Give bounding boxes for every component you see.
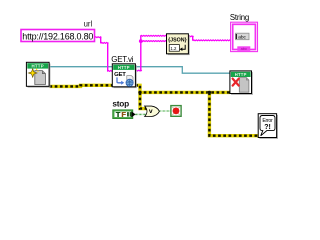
wire: url string constant -> GET.vi url input [95,37,102,38]
svg-text:1.2: 1.2 [170,46,177,51]
subVI: HTTP CloseHandle.vi [230,71,253,95]
svg-text:http://192.168.0.80: http://192.168.0.80 [22,31,93,41]
wire: Or gate -> loop condition terminal [159,110,171,112]
svg-text:abc: abc [238,35,246,41]
svg-text:?!: ?! [264,124,271,131]
subVI: Simple Error Handler.vi [258,114,278,139]
svg-text:Error: Error [262,118,273,124]
control terminal: stop (boolean TF) [112,109,135,119]
junction dot on string wire [139,39,143,43]
svg-text:HTTP: HTTP [118,65,130,70]
wire: error cluster GET->close (with junctions) [135,85,230,92]
svg-text:url: url [84,20,93,29]
wire: GET.vi body output up to JSON node (two inputs) [135,70,141,71]
svg-text:T: T [116,110,121,119]
terminal: loop condition (stop if true) [171,106,181,117]
wire: error branch down to Or gate [140,92,147,108]
string constant: url value [21,30,95,42]
function: Unflatten From JSON [167,34,190,55]
junction dot on error wire before close [208,91,211,94]
svg-text:HTTP: HTTP [31,64,43,69]
svg-text:abc: abc [241,46,247,51]
svg-text:F: F [122,110,127,119]
wire: stop boolean -> Or gate [135,113,146,115]
svg-text:String: String [230,13,249,22]
svg-text:stop: stop [112,99,129,109]
wire: error cluster open->GET [50,85,113,86]
subVI: HTTP OpenHandle.vi [26,62,50,87]
function: Or gate [145,106,160,116]
wire: HTTP client handle (teal) open->GET->close [49,67,231,74]
wire: JSON node output -> String indicator [188,36,193,37]
svg-text:GET: GET [114,72,126,78]
svg-text:{JSON}: {JSON} [168,38,187,44]
junction dot on error wire at GET output [138,91,141,94]
svg-text:GET.vi: GET.vi [111,55,133,64]
svg-text:v: v [149,108,153,115]
indicator: String [231,22,258,51]
svg-text:HTTP: HTTP [235,72,247,77]
subVI: GET.vi [112,64,136,88]
wire: error branch down to Simple Error Handler [209,92,258,135]
